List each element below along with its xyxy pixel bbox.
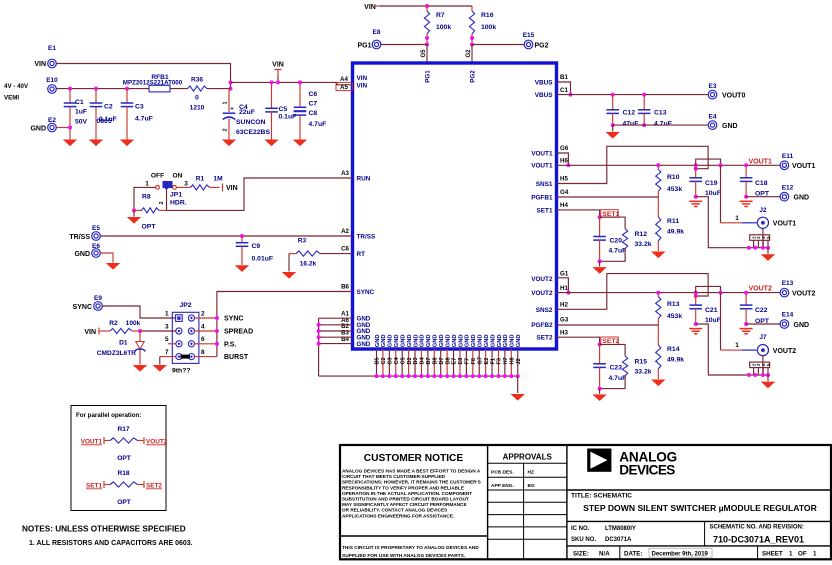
svg-text:G7: G7 (477, 357, 483, 364)
ground JP2 pin7 (153, 365, 167, 372)
svg-text:1. ALL RESISTORS AND CAPACITO: 1. ALL RESISTORS AND CAPACITORS ARE 0603… (29, 540, 193, 547)
ground C5 (264, 140, 278, 147)
svg-text:H1: H1 (560, 285, 568, 292)
svg-text:16.2k: 16.2k (300, 261, 317, 268)
logo Analog Devices (587, 449, 611, 472)
svg-text:GND: GND (510, 334, 516, 347)
svg-text:VOUT2: VOUT2 (773, 348, 796, 355)
svg-text:R14: R14 (667, 346, 680, 353)
svg-text:1210: 1210 (190, 105, 205, 112)
svg-text:C3: C3 (388, 357, 394, 364)
svg-text:R18: R18 (117, 470, 129, 477)
capacitor C23 (599, 344, 601, 363)
wire J2 pin1 (720, 165, 722, 223)
svg-text:F8: F8 (471, 358, 477, 365)
pin GND bottom 14 (459, 349, 461, 376)
svg-text:C1: C1 (75, 99, 84, 106)
svg-text:G3: G3 (560, 317, 569, 324)
pin GND bottom 22 (510, 349, 512, 376)
svg-text:SIZE:: SIZE: (573, 551, 589, 558)
resistor R11 (657, 197, 659, 217)
svg-text:B7: B7 (426, 357, 432, 364)
pin JP2 pad (176, 354, 182, 360)
svg-text:C2: C2 (104, 104, 113, 111)
ground R8 OPT (133, 210, 135, 216)
svg-text:4.7uF: 4.7uF (609, 248, 627, 255)
svg-text:TR/SS: TR/SS (69, 234, 90, 241)
terminal E13 (780, 288, 789, 297)
op-module U1 LTM8080 body (353, 63, 557, 349)
svg-text:49.9k: 49.9k (667, 229, 684, 236)
svg-text:H7: H7 (503, 357, 509, 364)
svg-text:E15: E15 (523, 32, 535, 39)
junction VBUS (569, 93, 573, 97)
svg-text:G2: G2 (466, 49, 472, 58)
svg-text:VIN: VIN (364, 4, 376, 11)
svg-text:SET2: SET2 (537, 335, 553, 342)
ground C1 (63, 140, 77, 147)
svg-text:0.1uF: 0.1uF (279, 114, 297, 121)
svg-text:2: 2 (223, 128, 229, 131)
svg-text:IC NO.: IC NO. (571, 526, 590, 532)
svg-text:GND: GND (394, 334, 400, 347)
pin GND bottom 5 (401, 349, 403, 376)
resistor R36 (188, 86, 207, 91)
pin GND bottom 23 (517, 349, 519, 376)
junction C1 (68, 87, 72, 91)
wire VOUT2 rail (557, 292, 781, 294)
svg-text:GND: GND (445, 334, 451, 347)
svg-text:B1: B1 (560, 74, 568, 81)
svg-text:J2: J2 (759, 207, 767, 214)
junction C19 gnd (694, 195, 698, 199)
resistor R13 (657, 293, 659, 297)
svg-text:33.2k: 33.2k (635, 241, 652, 248)
svg-text:GND: GND (465, 334, 471, 347)
svg-text:E5: E5 (92, 225, 100, 232)
svg-text:TITLE: SCHEMATIC: TITLE: SCHEMATIC (571, 493, 632, 500)
svg-text:1: 1 (789, 551, 793, 558)
svg-text:VBUS: VBUS (535, 92, 553, 99)
svg-text:C5: C5 (400, 357, 406, 364)
svg-text:GND: GND (722, 123, 738, 130)
pin JP2 pad (188, 341, 194, 347)
svg-text:SYNC: SYNC (357, 289, 375, 296)
wire JP2 pin7 to ground (160, 356, 176, 358)
pin JP2 pad (176, 341, 182, 347)
junction C12 bottom (611, 123, 615, 127)
terminal E3 (708, 90, 717, 99)
svg-text:1: 1 (145, 181, 149, 188)
svg-text:DATE:: DATE: (624, 551, 642, 558)
svg-text:4.7uF: 4.7uF (609, 375, 627, 382)
svg-text:C5: C5 (279, 106, 288, 113)
junction pin6 (215, 342, 219, 346)
pin GND bottom 7 (414, 349, 416, 376)
svg-text:GND: GND (471, 334, 477, 347)
resistor R2 (99, 330, 110, 332)
svg-text:E14: E14 (782, 312, 794, 319)
svg-text:R3: R3 (298, 238, 307, 245)
svg-text:C19: C19 (705, 180, 718, 187)
svg-text:C13: C13 (654, 110, 667, 117)
svg-text:6: 6 (201, 336, 205, 343)
svg-text:G1: G1 (560, 271, 569, 278)
svg-text:4.7uF: 4.7uF (309, 121, 327, 128)
svg-text:THIS CIRCUIT IS PROPRIETARY TO: THIS CIRCUIT IS PROPRIETARY TO ANALOG DE… (342, 545, 479, 551)
svg-text:D8: D8 (445, 357, 451, 364)
capacitor C21 (695, 293, 697, 306)
svg-text:F1: F1 (490, 358, 496, 365)
wire TR/SS (101, 235, 353, 237)
svg-text:R12: R12 (635, 231, 648, 238)
ground C3 (120, 140, 134, 147)
capacitor C4 (228, 89, 230, 112)
wire JP1 pin1 to R8 (134, 187, 156, 210)
svg-text:SUNCON: SUNCON (236, 119, 266, 126)
wire into pin G2 (471, 45, 473, 64)
wire SET VOUT1 (557, 210, 600, 217)
parallel operation box (71, 406, 166, 511)
svg-text:BG: BG (528, 483, 535, 489)
svg-text:OPT: OPT (117, 499, 131, 506)
svg-text:100k: 100k (481, 24, 496, 31)
svg-text:DEVICES: DEVICES (619, 463, 675, 478)
pin GND bottom 1 (376, 349, 378, 376)
wire E9 to JP2 pin1 (103, 306, 176, 318)
svg-text:SNS2: SNS2 (536, 307, 553, 314)
svg-text:E13: E13 (782, 280, 794, 287)
junction C12 top (611, 93, 615, 97)
svg-text:PGFB1: PGFB1 (531, 194, 553, 201)
pin GND bottom 17 (478, 349, 480, 376)
svg-text:GND: GND (375, 334, 381, 347)
svg-text:GND: GND (478, 334, 484, 347)
ground E6 (106, 263, 120, 270)
node SET2 label (601, 337, 618, 345)
title block frame (340, 445, 831, 559)
svg-text:453k: 453k (667, 313, 682, 320)
svg-text:SET1: SET1 (86, 482, 102, 489)
connector J7 (757, 345, 768, 356)
svg-text:E10: E10 (46, 77, 58, 84)
pin GND bottom 15 (465, 349, 467, 376)
ground C4 (222, 140, 236, 147)
svg-text:GND: GND (381, 334, 387, 347)
svg-text:C21: C21 (705, 307, 718, 314)
ground C2 (89, 140, 103, 147)
svg-text:H2: H2 (560, 302, 568, 309)
svg-text:1M: 1M (213, 176, 223, 183)
ground C23 (592, 394, 606, 401)
svg-text:4.7uF: 4.7uF (135, 116, 153, 123)
svg-text:OFF: OFF (151, 173, 164, 180)
wire C21 gnd to shield (696, 324, 768, 375)
svg-text:PG1: PG1 (425, 70, 432, 83)
resistor R7 (424, 11, 429, 34)
junction E1 drop (229, 80, 233, 84)
svg-text:4.7uF: 4.7uF (654, 121, 672, 128)
svg-text:H6: H6 (560, 158, 568, 165)
ferrite bead RFB1 (149, 85, 170, 92)
svg-text:VEMI: VEMI (4, 95, 19, 102)
svg-text:0: 0 (195, 95, 199, 102)
svg-text:710-DC3071A_REV01: 710-DC3071A_REV01 (713, 535, 804, 545)
wire VBUS to E3 (557, 94, 709, 96)
svg-text:GND: GND (30, 126, 46, 133)
svg-text:63CE22BS: 63CE22BS (236, 129, 270, 136)
svg-text:E3: E3 (709, 83, 717, 90)
svg-text:GND: GND (400, 334, 406, 347)
capacitor C19 (695, 165, 697, 178)
pin GND bottom 12 (446, 349, 448, 376)
pin GND bottom 20 (497, 349, 499, 376)
svg-text:SYNC: SYNC (224, 316, 243, 323)
svg-text:1: 1 (223, 101, 229, 104)
svg-text:PG1: PG1 (357, 43, 371, 50)
svg-text:JP1: JP1 (170, 192, 182, 199)
wire VOUT1 rail (557, 164, 781, 166)
svg-text:APPLICATIONS ENGINEERING FOR A: APPLICATIONS ENGINEERING FOR ASSISTANCE. (342, 513, 454, 518)
junction C21 gnd (694, 322, 698, 326)
wire E6 to ground (101, 253, 114, 263)
svg-text:H5: H5 (560, 176, 568, 183)
svg-text:B8: B8 (432, 357, 438, 364)
resistor R12 (600, 217, 626, 229)
svg-text:P.S.: P.S. (224, 341, 236, 348)
svg-text:PCB DES.: PCB DES. (491, 470, 514, 476)
svg-text:47uF: 47uF (623, 121, 639, 128)
svg-text:C20: C20 (610, 237, 623, 244)
wire JP2 right bus to SYNC (195, 317, 217, 319)
wire JP2 pin5 stub (168, 343, 176, 345)
resistor R1 (177, 186, 191, 188)
svg-text:VIN: VIN (84, 329, 96, 336)
svg-text:VBUS: VBUS (535, 79, 553, 86)
svg-text:R17: R17 (117, 426, 129, 433)
svg-text:CUSTOMER NOTICE: CUSTOMER NOTICE (364, 453, 464, 464)
svg-text:For parallel operation:: For parallel operation: (76, 412, 141, 419)
junction E2 (68, 126, 72, 130)
terminal E1 (48, 59, 57, 68)
svg-text:C2: C2 (381, 357, 387, 364)
svg-text:JP2: JP2 (179, 302, 191, 309)
svg-text:GND: GND (458, 334, 464, 347)
diode D1 zener (139, 331, 141, 342)
junction pin2 (215, 316, 219, 320)
junction R7 bottom (425, 36, 429, 40)
junction C13 bottom (642, 123, 646, 127)
svg-text:D4: D4 (420, 356, 426, 364)
pin GND bottom 3 (388, 349, 390, 376)
svg-text:VOUT2: VOUT2 (792, 290, 815, 297)
wire E8 to R7 (381, 44, 427, 46)
junction C6 (298, 80, 302, 84)
terminal E11 (780, 161, 789, 170)
svg-text:PGFB2: PGFB2 (531, 322, 553, 329)
svg-text:3: 3 (184, 181, 188, 188)
svg-text:VIN: VIN (357, 75, 368, 82)
svg-text:R7: R7 (436, 12, 445, 19)
wire JP1 pin2 to RUN (166, 189, 168, 210)
svg-text:GND: GND (490, 334, 496, 347)
svg-text:J2: J2 (516, 358, 522, 364)
svg-text:G5: G5 (421, 49, 427, 58)
ground C21 (689, 328, 702, 330)
svg-text:VIN: VIN (226, 185, 238, 192)
header JP2 (172, 312, 199, 363)
wire VOUT1 G stub (557, 153, 569, 165)
pin GND bottom 21 (504, 349, 506, 376)
svg-text:J7: J7 (759, 334, 767, 341)
svg-text:RUN: RUN (357, 175, 371, 182)
wire GND row to E4 (613, 124, 708, 126)
svg-text:F3: F3 (497, 358, 503, 365)
svg-text:1: 1 (735, 342, 739, 349)
svg-text:VOUT1: VOUT1 (773, 221, 796, 228)
ground C18 (740, 200, 753, 202)
svg-text:SCHEMATIC NO. AND REVISION:: SCHEMATIC NO. AND REVISION: (710, 525, 804, 531)
junction top of R7 (425, 4, 429, 8)
svg-text:10uF: 10uF (705, 317, 721, 324)
capacitor C3 (126, 89, 128, 103)
svg-text:GND: GND (439, 334, 445, 347)
junction pin4 (215, 329, 219, 333)
svg-text:GND: GND (426, 334, 432, 347)
svg-text:VOUT1: VOUT1 (531, 163, 553, 170)
wire VOUT2 jog (696, 286, 721, 292)
svg-text:E11: E11 (782, 153, 794, 160)
svg-text:MAY SIGNIFICANTLY AFFECT CIRC: MAY SIGNIFICANTLY AFFECT CIRCUIT PERFORM… (342, 502, 467, 507)
svg-text:E9: E9 (94, 295, 102, 302)
svg-text:PG2: PG2 (470, 70, 477, 83)
svg-text:SET2: SET2 (146, 482, 162, 489)
svg-text:C8: C8 (309, 110, 318, 117)
svg-text:LTM8080IY: LTM8080IY (605, 526, 636, 532)
svg-text:E1: E1 (48, 45, 56, 52)
wire C19 gnd to shield (696, 197, 768, 248)
svg-text:C4: C4 (394, 356, 400, 364)
ground C12 (606, 132, 620, 139)
svg-text:VOUT1: VOUT1 (749, 158, 772, 165)
pin GND bottom 6 (408, 349, 410, 376)
pin GND bottom 9 (427, 349, 429, 376)
svg-text:1uF: 1uF (75, 109, 87, 116)
svg-text:F7: F7 (465, 358, 471, 365)
capacitor C1 (69, 89, 71, 103)
pin GND bottom 2 (382, 349, 384, 376)
svg-text:5: 5 (165, 336, 169, 343)
svg-text:OR RELIABILITY. CONTACT ANAL: OR RELIABILITY. CONTACT ANALOG DEVICES (342, 508, 447, 513)
svg-text:E2: E2 (48, 117, 56, 124)
terminal E10 (48, 85, 57, 94)
pin GND bottom 13 (453, 349, 455, 376)
resistor R14 (657, 325, 659, 345)
svg-text:E6: E6 (92, 243, 100, 250)
svg-text:SET1: SET1 (537, 207, 553, 214)
junction R13 top (656, 291, 660, 295)
svg-text:STEP DOWN SILENT SWITCHER µMOD: STEP DOWN SILENT SWITCHER µMODULE REGULA… (583, 503, 817, 513)
svg-text:B6: B6 (341, 284, 349, 291)
svg-text:C1: C1 (560, 87, 568, 94)
svg-text:GND: GND (413, 334, 419, 347)
wire rail right (231, 81, 338, 83)
capacitor C20 (599, 217, 601, 236)
pin GND bottom 10 (433, 349, 435, 376)
svg-text:C6: C6 (309, 91, 318, 98)
terminal E5 (92, 232, 101, 241)
connector J2 shield pins (762, 228, 764, 247)
svg-text:H3: H3 (560, 329, 568, 336)
svg-text:C23: C23 (610, 365, 623, 372)
svg-text:SKU NO.: SKU NO. (571, 537, 596, 543)
wire SNS VOUT2 kelvin (557, 274, 709, 310)
wire GND stub (319, 317, 353, 319)
svg-text:OF: OF (798, 551, 807, 558)
junction GND bus (317, 342, 321, 346)
terminal E9 (94, 302, 103, 311)
svg-text:E7: E7 (452, 358, 458, 365)
junction C23 bottom (598, 387, 602, 391)
ground J7 shield (767, 375, 769, 381)
svg-text:3: 3 (165, 323, 169, 330)
pin GND bottom 8 (420, 349, 422, 376)
pin JP2 pad (176, 328, 182, 334)
junction GND bus (317, 323, 321, 327)
svg-text:R16: R16 (481, 12, 494, 19)
svg-text:49.9k: 49.9k (667, 357, 684, 364)
junction C20 bottom (598, 259, 602, 263)
svg-text:C12: C12 (623, 110, 636, 117)
wire J7 pin1 (720, 293, 722, 351)
svg-text:4: 4 (201, 323, 205, 330)
pin GND bottom 11 (440, 349, 442, 376)
node SET1 label (601, 210, 618, 218)
svg-text:GND: GND (484, 334, 490, 347)
svg-text:VOUT1: VOUT1 (81, 438, 103, 445)
terminal E14 (780, 320, 789, 329)
svg-text:A3: A3 (341, 170, 349, 177)
svg-text:HDR.: HDR. (170, 200, 187, 207)
pin GND bottom 19 (491, 349, 493, 376)
svg-text:A2: A2 (341, 228, 349, 235)
pin GND bottom 4 (395, 349, 397, 376)
svg-text:50V: 50V (75, 119, 88, 126)
svg-text:SYNC: SYNC (73, 304, 92, 311)
svg-text:MPZ2012S221AT000: MPZ2012S221AT000 (123, 80, 183, 87)
svg-text:22uF: 22uF (239, 109, 255, 116)
terminal E15 (524, 40, 533, 49)
wire VBUS B1 stub (557, 82, 571, 95)
svg-text:D7: D7 (439, 357, 445, 364)
capacitor C22 (745, 293, 747, 306)
pin GND bottom 18 (485, 349, 487, 376)
wire E1 to rail (57, 64, 231, 89)
wire R16 to E15 (472, 44, 524, 46)
jumper shunt JP2 7-8 (181, 355, 190, 359)
connector J2 (757, 217, 768, 228)
capacitor C13 (643, 95, 645, 110)
svg-text:ANALOG DEVICES HAS MADE A BEST: ANALOG DEVICES HAS MADE A BEST EFFORT TO… (342, 469, 481, 474)
svg-text:R15: R15 (635, 358, 648, 365)
node VIN R1 (222, 184, 224, 192)
svg-text:B5: B5 (375, 357, 381, 364)
svg-text:+: + (230, 107, 234, 113)
svg-text:SPREAD: SPREAD (224, 329, 253, 336)
svg-text:10uF: 10uF (705, 190, 721, 197)
wire PGFB VOUT2 (557, 324, 659, 326)
svg-text:R13: R13 (667, 301, 680, 308)
